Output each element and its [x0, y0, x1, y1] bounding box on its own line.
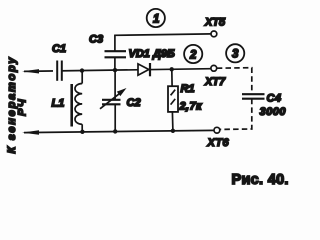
- svg-text:2,7к: 2,7к: [179, 100, 203, 112]
- svg-text:VD1 Д9Б: VD1 Д9Б: [129, 48, 176, 60]
- svg-text:C3: C3: [89, 34, 103, 46]
- wire: top wire to XT5: [114, 34, 211, 35]
- node: junction bottom-left (L1): [80, 130, 84, 134]
- node: junction bottom-right (R1): [171, 129, 175, 133]
- capacitor C2 variable: [100, 70, 127, 131]
- svg-text:1: 1: [153, 14, 159, 26]
- dashed wire C4 to XT6: [220, 99, 252, 130]
- resistor R1: [168, 69, 178, 131]
- node: junction top-left: [80, 68, 84, 72]
- svg-text:XT5: XT5: [204, 17, 226, 29]
- svg-text:РЧ: РЧ: [17, 98, 29, 116]
- node: junction diode/R1: [170, 67, 174, 71]
- terminal XT6: [214, 127, 220, 133]
- svg-text:R1: R1: [181, 83, 195, 95]
- svg-text:2: 2: [189, 49, 197, 61]
- svg-text:L1: L1: [52, 98, 65, 110]
- label circled 1: [147, 9, 165, 27]
- terminal XT5: [211, 31, 217, 37]
- arrow left (middle wire): [22, 69, 39, 73]
- svg-text:XT7: XT7: [204, 76, 226, 88]
- svg-text:C4: C4: [267, 93, 282, 105]
- svg-text:C2: C2: [127, 97, 141, 109]
- label circled 3: [226, 44, 244, 62]
- node: junction mid-top (C3/C2/diode): [113, 68, 117, 72]
- inductor L1: [72, 71, 83, 132]
- svg-text:C1: C1: [52, 43, 66, 55]
- arrow left (bottom wire): [22, 130, 39, 134]
- label K generatoru RCh (rotated): [6, 56, 29, 154]
- wire: bottom wire (arrow to XT6): [24, 130, 214, 132]
- capacitor C1: [53, 58, 63, 83]
- node: junction bottom-mid (C2): [113, 129, 117, 133]
- terminal XT7: [211, 65, 217, 71]
- capacitor C3: [105, 35, 127, 70]
- svg-text:Рис. 40.: Рис. 40.: [232, 172, 289, 188]
- svg-text:XТ6: XТ6: [207, 137, 230, 149]
- diode VD1: [138, 63, 150, 76]
- svg-text:3: 3: [232, 49, 239, 61]
- label circled 2: [184, 45, 202, 63]
- wire: main middle wire (arrow to XT7): [24, 69, 211, 72]
- capacitor C4: [242, 94, 265, 99]
- svg-text:3000: 3000: [260, 106, 287, 118]
- dashed wire XT7 to C4: [217, 68, 252, 95]
